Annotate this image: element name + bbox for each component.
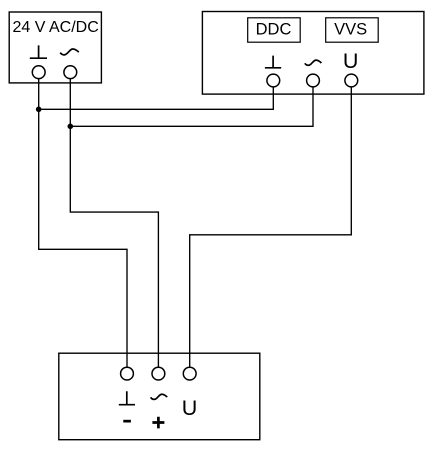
wire W2 branch to controller AC terminal (70, 80, 313, 126)
terminal circle transmitter plus (152, 367, 165, 380)
terminal circle power supply AC (64, 66, 77, 79)
ground symbol in transmitter (119, 391, 135, 404)
ground symbol in power supply (30, 45, 47, 58)
plus label (152, 417, 164, 429)
terminal circle controller ground (267, 74, 280, 87)
svg-text:24 V AC/DC: 24 V AC/DC (13, 19, 99, 36)
power supply box (9, 12, 101, 83)
terminal circle transmitter U (183, 367, 196, 380)
controller box (202, 12, 424, 95)
svg-text:VVS: VVS (334, 21, 367, 39)
svg-text:DDC: DDC (256, 21, 292, 39)
svg-text:U: U (343, 49, 359, 73)
svg-text:U: U (182, 396, 198, 420)
AC symbol in power supply (60, 49, 79, 55)
ground symbol in controller (265, 56, 281, 68)
AC symbol in transmitter (151, 394, 168, 399)
AC symbol in controller (305, 60, 322, 65)
terminal circle controller AC (307, 74, 320, 87)
wire W1 branch to controller ground terminal (39, 80, 274, 109)
VVS sub-box (326, 18, 379, 42)
terminal circle transmitter ground (121, 367, 134, 380)
minus label (123, 420, 131, 423)
terminal circle controller U (345, 74, 358, 87)
wire W3 signal from controller U terminal to transmitter U terminal (190, 80, 352, 374)
wire W2 from power supply AC terminal to transmitter plus terminal (70, 72, 158, 374)
DDC sub-box (248, 18, 301, 42)
terminal circle power supply ground (32, 66, 45, 79)
junction dot 1 (36, 107, 42, 113)
junction dot 2 (68, 124, 74, 130)
transmitter box (59, 353, 260, 440)
wire W1 from power supply ground terminal to transmitter minus terminal (39, 72, 127, 374)
